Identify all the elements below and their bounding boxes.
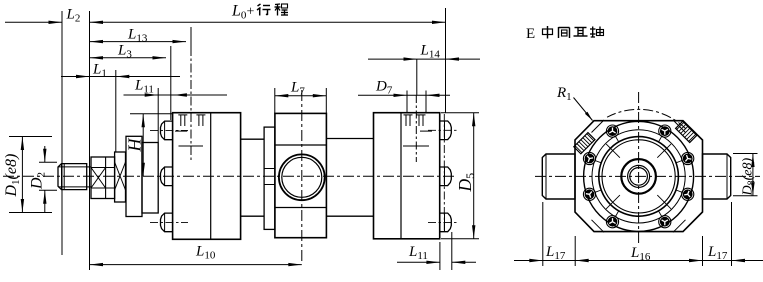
svg-text:D8(e8): D8(e8) <box>741 157 758 196</box>
svg-text:E: E <box>526 26 535 42</box>
svg-text:H: H <box>124 138 144 153</box>
svg-text:D1(e8): D1(e8) <box>3 154 22 198</box>
svg-text:+: + <box>247 5 255 20</box>
